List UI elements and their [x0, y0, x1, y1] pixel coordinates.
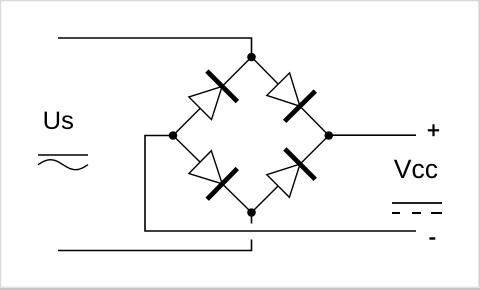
- label Vcc: [394, 160, 437, 179]
- label plus sign: [428, 129, 439, 131]
- wire bottom node stub: [251, 213, 253, 224]
- frame bottom edge: [0, 287, 480, 288]
- frame top edge: [0, 0, 480, 1]
- wire top AC input horizontal: [58, 38, 252, 53]
- frame left edge: [0, 0, 1, 290]
- wire positive output from right node: [329, 134, 416, 136]
- diode D3 cathode bar: [207, 169, 237, 200]
- wire bridge arm top-right: [252, 57, 329, 136]
- AC source symbol line: [38, 154, 88, 156]
- node top junction: [247, 53, 256, 62]
- frame right edge: [478, 0, 480, 290]
- diode D1 cathode bar: [207, 71, 238, 102]
- wire bridge arm bottom-right: [252, 136, 329, 213]
- diode D4 cathode bar: [285, 149, 315, 179]
- DC symbol solid line: [392, 202, 442, 204]
- node right junction: [324, 131, 333, 140]
- node left junction: [169, 131, 178, 140]
- wire bottom AC input horizontal: [58, 240, 252, 251]
- node bottom junction: [247, 208, 256, 217]
- diode D2 cathode bar: [285, 91, 316, 121]
- label minus sign: [429, 237, 435, 239]
- diode D2 triangle (top node to right node): [267, 73, 300, 106]
- diode D4 triangle (bottom node to right node): [267, 164, 300, 197]
- wire bridge arm left-top: [173, 57, 252, 136]
- diode D3 triangle (left node to bottom node): [189, 151, 222, 184]
- label Us: [45, 112, 73, 130]
- DC symbol dashed line: [392, 212, 400, 214]
- wire negative output from left node: [145, 136, 416, 232]
- wire bridge arm left-bottom: [173, 136, 252, 213]
- diode D1 triangle (left node to top node): [189, 86, 222, 119]
- AC source symbol sine: [38, 160, 88, 170]
